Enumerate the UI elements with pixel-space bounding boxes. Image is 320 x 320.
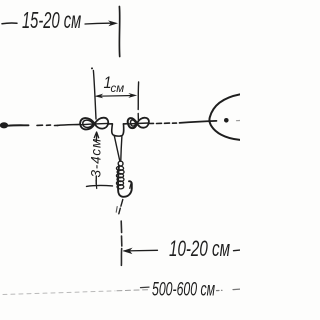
svg-text:15-20 см: 15-20 см [22, 9, 81, 34]
svg-text:3-4см: 3-4см [89, 138, 104, 178]
svg-text:500-600 см: 500-600 см [152, 279, 215, 301]
svg-text:10-20 см: 10-20 см [169, 237, 230, 261]
svg-text:см: см [111, 83, 125, 95]
